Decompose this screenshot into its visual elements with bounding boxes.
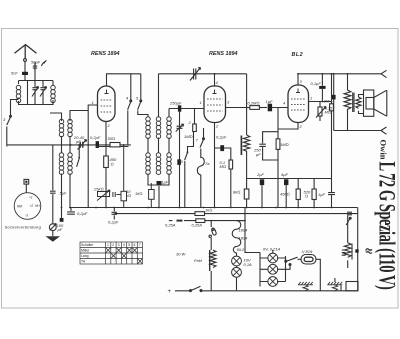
- svg-text:0,2µF: 0,2µF: [77, 211, 88, 216]
- svg-text:Schalter: Schalter: [81, 243, 94, 247]
- svg-text:pF: pF: [75, 139, 81, 144]
- svg-text:1: 1: [92, 100, 94, 105]
- svg-text:50pF: 50pF: [31, 60, 41, 65]
- svg-text:7a: 7a: [205, 161, 210, 166]
- svg-text:RENS 1894: RENS 1894: [209, 51, 237, 57]
- svg-text:1µF: 1µF: [266, 99, 274, 104]
- svg-text:RENS 1894: RENS 1894: [91, 51, 119, 57]
- svg-text:BL2: BL2: [292, 52, 304, 58]
- svg-text:Sockelverbindung: Sockelverbindung: [5, 225, 42, 230]
- svg-text:-3: -3: [25, 214, 28, 218]
- svg-text:RM: RM: [17, 205, 22, 209]
- svg-text:6: 6: [134, 243, 136, 247]
- svg-text:0,1µF: 0,1µF: [311, 81, 322, 86]
- svg-text:4: 4: [123, 243, 125, 247]
- svg-text:+: +: [168, 289, 172, 295]
- svg-text:L 72 G Spezial (110 V): L 72 G Spezial (110 V): [374, 162, 399, 290]
- svg-text:50Ω: 50Ω: [108, 136, 116, 141]
- svg-text:Ω: Ω: [305, 194, 308, 199]
- svg-text:1894: 1894: [239, 236, 249, 241]
- svg-text:Feld: Feld: [194, 258, 203, 263]
- svg-text:Lang: Lang: [81, 254, 89, 258]
- svg-text:pF: pF: [255, 152, 261, 157]
- svg-text:5cF: 5cF: [11, 71, 18, 76]
- svg-text:BL2: BL2: [237, 247, 245, 252]
- svg-text:Mittel: Mittel: [81, 249, 89, 253]
- svg-text:3: 3: [118, 243, 120, 247]
- svg-text:1kΩ: 1kΩ: [205, 208, 212, 213]
- svg-text:5µF: 5µF: [60, 191, 68, 196]
- svg-text:U 819: U 819: [302, 249, 313, 254]
- svg-text:1: 1: [107, 243, 109, 247]
- svg-text:5: 5: [128, 243, 130, 247]
- svg-text:0,25A: 0,25A: [165, 223, 176, 228]
- svg-text:Kμ?: Kμ?: [365, 248, 373, 253]
- svg-text:MΩ: MΩ: [220, 164, 226, 169]
- svg-text:1: 1: [310, 96, 312, 101]
- svg-text:0,25A: 0,25A: [192, 223, 203, 228]
- svg-text:2M: 2M: [323, 99, 330, 104]
- svg-text:1kΩ: 1kΩ: [135, 191, 142, 196]
- svg-text:2µF: 2µF: [256, 172, 265, 177]
- svg-text:+1: +1: [29, 196, 33, 200]
- svg-text:0,2µF: 0,2µF: [90, 135, 101, 140]
- svg-text:1894: 1894: [239, 228, 249, 233]
- svg-text:0,2MΩ: 0,2MΩ: [248, 101, 260, 106]
- svg-text:0,1A: 0,1A: [244, 262, 253, 267]
- svg-text:MΩ: MΩ: [325, 110, 331, 115]
- svg-text:1MΩ: 1MΩ: [280, 142, 289, 147]
- svg-text:250µF: 250µF: [169, 101, 182, 106]
- svg-text:pF: pF: [57, 227, 63, 232]
- svg-text:8kΩ: 8kΩ: [233, 190, 240, 195]
- svg-text:1MΩ: 1MΩ: [184, 134, 193, 139]
- svg-text:1: 1: [200, 100, 202, 105]
- svg-text:0,2µF: 0,2µF: [108, 220, 119, 225]
- svg-text:450Ω: 450Ω: [280, 192, 290, 197]
- svg-text:+2: +2: [30, 204, 34, 208]
- svg-text:0,1µF: 0,1µF: [158, 180, 169, 185]
- svg-text:1µF: 1µF: [318, 192, 326, 197]
- svg-text:30 W: 30 W: [176, 252, 187, 257]
- svg-text:4µF: 4µF: [281, 172, 289, 177]
- svg-text:HH: HH: [35, 204, 40, 208]
- svg-text:Ω: Ω: [111, 162, 114, 167]
- svg-text:25kΩ: 25kΩ: [93, 187, 104, 192]
- svg-text:Owin: Owin: [379, 140, 389, 160]
- svg-text:7: 7: [139, 243, 141, 247]
- svg-text:6V, 0,21A: 6V, 0,21A: [263, 247, 281, 252]
- svg-text:2: 2: [112, 243, 114, 247]
- svg-text:0,2µF: 0,2µF: [216, 135, 227, 140]
